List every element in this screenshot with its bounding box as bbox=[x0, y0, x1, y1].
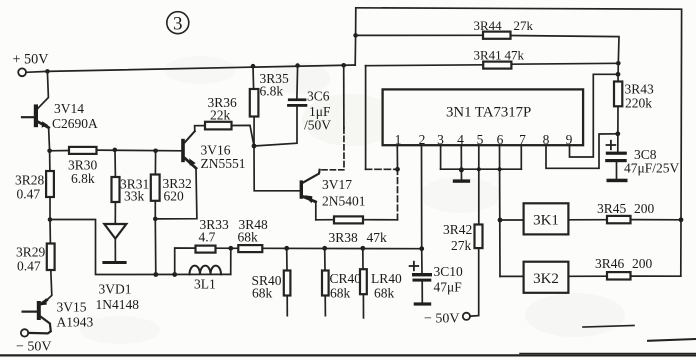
wire pins3-7 tie bbox=[441, 168, 522, 170]
wire 3C6 bottom lead to X1 bbox=[254, 107, 297, 146]
svg-text:/50V: /50V bbox=[304, 118, 331, 133]
wire pin6 to 3K2 bbox=[500, 275, 524, 277]
svg-text:ZN5551: ZN5551 bbox=[201, 156, 246, 171]
wire 3R43 bottom lead bbox=[617, 106, 619, 151]
resistor 3R38 bbox=[329, 216, 388, 245]
wire 3R33 to 3R48 bbox=[216, 247, 239, 249]
wire C left drop to pin1 node bbox=[365, 66, 367, 170]
node X1 bbox=[252, 144, 257, 149]
resistor CR40 bbox=[322, 248, 361, 315]
wire 3K1 to 3R45 bbox=[568, 219, 607, 221]
svg-text:47k: 47k bbox=[505, 48, 525, 63]
wire 3R30 left stub bbox=[50, 150, 69, 152]
transistor Q 3V16 bbox=[181, 131, 245, 171]
wire 3K2 to 3R46 bbox=[568, 275, 607, 277]
resistor 3R44 bbox=[474, 18, 534, 39]
node pin2 bus bbox=[419, 246, 424, 251]
resistor 3R36 bbox=[205, 95, 237, 129]
wire output node to diode row bbox=[50, 220, 231, 275]
node 3L1 left bbox=[172, 272, 177, 277]
wire 3C6 top lead bbox=[296, 66, 299, 99]
capacitor 3C8 bbox=[605, 141, 679, 183]
capacitor 3C6 bbox=[287, 89, 331, 133]
svg-text:3R38: 3R38 bbox=[329, 230, 359, 245]
svg-text:6.8k: 6.8k bbox=[260, 84, 284, 99]
wire 3V16 emitter link bbox=[155, 168, 197, 219]
resistor 3R43 bbox=[614, 82, 654, 111]
resistor 3R46 bbox=[595, 256, 653, 280]
relay 3K2 bbox=[524, 262, 569, 293]
resistor SR40 bbox=[252, 248, 291, 315]
svg-text:3R41: 3R41 bbox=[474, 48, 502, 63]
node 3R30 left bbox=[47, 149, 52, 154]
svg-text:3K2: 3K2 bbox=[533, 271, 559, 287]
wire pin9 route to 3R43 top node bbox=[570, 74, 619, 157]
resistor 3R35 bbox=[250, 71, 289, 117]
svg-text:3R29: 3R29 bbox=[16, 245, 46, 260]
wire 3R32 top lead bbox=[154, 151, 156, 175]
svg-text:47k: 47k bbox=[367, 230, 388, 245]
wire dashed pin1 drop bbox=[397, 169, 399, 220]
svg-text:3VD1: 3VD1 bbox=[99, 282, 132, 297]
node rail-dashed-drop bbox=[341, 63, 346, 68]
resistor 3R29 bbox=[16, 244, 55, 274]
svg-text:4.7: 4.7 bbox=[199, 230, 216, 245]
node rail-3R35 bbox=[251, 64, 256, 69]
wire C (3R41 rail) bbox=[366, 64, 484, 67]
resistor 3R31 bbox=[112, 177, 150, 204]
wire 3R28 bottom lead bbox=[49, 197, 51, 220]
node 3R32 col joins diode row bbox=[153, 272, 158, 277]
bottom border doubled right bbox=[520, 353, 696, 355]
svg-text:47μF/25V: 47μF/25V bbox=[624, 161, 679, 176]
svg-text:3V17: 3V17 bbox=[322, 177, 352, 192]
-50V terminal mid bbox=[424, 312, 470, 327]
wire pin5 lead to 3R42 bbox=[478, 145, 480, 224]
wire 3R35 top lead bbox=[252, 66, 255, 89]
wire 3R43 top lead bbox=[617, 63, 619, 81]
wire 3R35 bottom lead bbox=[253, 117, 255, 147]
wire 3R29 top lead bbox=[49, 220, 51, 244]
wire 3R28 top lead bbox=[49, 151, 51, 171]
wire rail up to top loop bbox=[354, 8, 357, 65]
wire pin2 lead to 3C10 bbox=[421, 145, 424, 273]
wire pin8 route to 3C8 node bbox=[546, 134, 618, 169]
inductor 3L1 bbox=[190, 266, 222, 292]
wire 3R38 left lead bbox=[316, 219, 334, 221]
node 3R43 top bbox=[616, 61, 621, 66]
resistor 3R48 bbox=[238, 217, 269, 252]
wire 3R46 to right rail corner bbox=[631, 275, 681, 277]
node tie pin6 bbox=[498, 167, 502, 171]
svg-text:3: 3 bbox=[173, 14, 183, 35]
wire C right to 3R43 top node bbox=[511, 62, 618, 65]
svg-text:3R42: 3R42 bbox=[443, 222, 472, 237]
svg-text:+ 50V: + 50V bbox=[13, 52, 50, 68]
node bus CR40 bbox=[322, 246, 327, 251]
svg-text:5: 5 bbox=[477, 132, 484, 147]
+50V terminal bbox=[13, 52, 50, 77]
figure number 3 circled bbox=[167, 12, 189, 35]
wire B right (3R44 to 3R43 top) bbox=[511, 36, 620, 64]
resistor 3R45 bbox=[597, 201, 655, 223]
svg-text:3L1: 3L1 bbox=[194, 277, 216, 292]
ground bar under pin4 bbox=[453, 170, 470, 183]
wire pin4 lead bbox=[460, 145, 462, 170]
svg-text:620: 620 bbox=[164, 189, 185, 204]
svg-text:22k: 22k bbox=[210, 108, 231, 123]
resistor 3R41 bbox=[474, 48, 525, 69]
wire pin1 lead bbox=[396, 145, 398, 169]
svg-text:7: 7 bbox=[519, 132, 526, 147]
wire left column 3V14 collector drop bbox=[38, 71, 49, 108]
resistor 3R30 bbox=[68, 147, 98, 186]
stray mark lower right bbox=[648, 339, 696, 341]
node wireB branch bbox=[353, 33, 358, 38]
wire pin3 lead bbox=[440, 145, 442, 169]
svg-text:− 50V: − 50V bbox=[424, 312, 460, 327]
wire pin6 to 3K1 bbox=[500, 219, 524, 221]
resistor 3R42 bbox=[443, 222, 483, 253]
svg-text:2N5401: 2N5401 bbox=[322, 194, 366, 209]
svg-text:3R43: 3R43 bbox=[625, 82, 655, 97]
svg-text:200: 200 bbox=[632, 256, 653, 271]
svg-text:3V15: 3V15 bbox=[57, 300, 87, 315]
wire dashed rail drop to 3V17 collector bbox=[320, 65, 344, 170]
svg-text:3C6: 3C6 bbox=[307, 89, 330, 104]
svg-text:− 50V: − 50V bbox=[16, 340, 52, 355]
wire +50V rail bbox=[26, 65, 355, 72]
svg-text:3C10: 3C10 bbox=[434, 264, 464, 279]
IC U 3N1 TA7317P bbox=[383, 89, 583, 147]
resistor LR40 bbox=[360, 248, 402, 318]
svg-text:3R45: 3R45 bbox=[597, 201, 627, 216]
svg-text:220k: 220k bbox=[625, 96, 652, 111]
relay 3K1 bbox=[524, 203, 569, 234]
wire 3L1 right riser bbox=[230, 248, 232, 274]
node rail-3V14 bbox=[45, 69, 50, 74]
wire 3R32 bottom lead bbox=[154, 201, 157, 275]
resistor 3R28 bbox=[15, 171, 54, 202]
wire inductor row left segment bbox=[175, 248, 196, 275]
svg-text:68k: 68k bbox=[252, 286, 273, 301]
svg-text:LR40: LR40 bbox=[371, 271, 402, 286]
transistor Q 3V15 bbox=[23, 298, 94, 333]
node 3C8 top bbox=[615, 131, 620, 136]
svg-text:A1943: A1943 bbox=[57, 315, 94, 330]
svg-text:0.47: 0.47 bbox=[17, 187, 41, 202]
node rail-3C6 bbox=[295, 63, 300, 68]
svg-text:47μF: 47μF bbox=[434, 280, 463, 295]
bottom border line bbox=[0, 354, 696, 356]
node tie pin5 bbox=[477, 167, 481, 171]
wire 3V16 collector to 3R36 bbox=[195, 126, 205, 132]
wire 3R30 right to 3V16 base bbox=[97, 149, 182, 152]
resistor 3R32 bbox=[151, 175, 192, 204]
svg-text:0.47: 0.47 bbox=[17, 259, 41, 274]
node bus SR40 bbox=[284, 246, 289, 251]
wire 3R29 bottom to 3V15 bbox=[46, 270, 52, 301]
wire pin7 lead bbox=[520, 145, 522, 169]
transistor Q 3V14 bbox=[22, 101, 98, 131]
svg-text:3V14: 3V14 bbox=[54, 101, 84, 116]
wire 3R31 top lead bbox=[114, 150, 116, 177]
svg-text:68k: 68k bbox=[238, 230, 259, 245]
svg-text:33k: 33k bbox=[124, 189, 145, 204]
node 3L1 right riser bbox=[228, 246, 233, 251]
svg-text:3R46: 3R46 bbox=[595, 256, 625, 271]
node pin9 joint bbox=[616, 72, 621, 77]
node pin1 bbox=[395, 167, 400, 172]
wire 3R36 right to node X1 bbox=[232, 125, 255, 146]
wire top loop A bbox=[356, 8, 682, 276]
resistor 3R33 bbox=[196, 217, 230, 253]
node pin6 3K1 bbox=[498, 218, 503, 223]
svg-text:27k: 27k bbox=[451, 238, 472, 253]
wire 3R31 bottom to diode bbox=[114, 202, 116, 224]
node 3R32-3V16 emitter bbox=[153, 217, 158, 222]
wire 3V14 emitter down bbox=[49, 128, 50, 151]
wire bus 3R48 to pin2 column bbox=[262, 247, 421, 249]
svg-text:68k: 68k bbox=[374, 286, 395, 301]
svg-text:68k: 68k bbox=[330, 286, 351, 301]
wire dashed pin1 node horizontal bbox=[366, 168, 398, 170]
wire B left (to 3R44) bbox=[356, 34, 483, 36]
capacitor 3C10 bbox=[410, 262, 463, 306]
svg-text:200: 200 bbox=[634, 201, 655, 216]
stray mark lower middle bbox=[583, 326, 634, 328]
node 3R32 top bbox=[153, 149, 158, 154]
wire 3V17 emitter down bbox=[315, 202, 317, 220]
svg-text:3R28: 3R28 bbox=[15, 173, 45, 188]
wire X1 down to 3V17 base bbox=[254, 146, 300, 191]
wire 3R45 to right rail bbox=[631, 219, 682, 221]
diode 3VD1 bbox=[96, 224, 140, 312]
wire 3R38 right lead bbox=[363, 219, 398, 221]
node output rail left bbox=[48, 217, 53, 222]
svg-text:6.8k: 6.8k bbox=[71, 171, 95, 186]
node 3R31 top bbox=[113, 148, 118, 153]
node right rail 3R45 bbox=[679, 217, 684, 222]
node bus LR40 bbox=[360, 246, 365, 251]
wire pin6 lead down bbox=[499, 145, 502, 276]
svg-text:C2690A: C2690A bbox=[52, 116, 98, 131]
svg-text:3N1 TA7317P: 3N1 TA7317P bbox=[446, 105, 531, 121]
node tie pin4 bbox=[459, 167, 464, 172]
wire 3R42 bottom to -50V terminal bbox=[470, 248, 479, 316]
svg-text:3K1: 3K1 bbox=[533, 213, 559, 229]
svg-text:CR40: CR40 bbox=[330, 271, 362, 286]
svg-text:1N4148: 1N4148 bbox=[96, 297, 140, 312]
-50V terminal left bbox=[16, 329, 52, 354]
transistor Q 3V17 bbox=[300, 170, 366, 209]
svg-text:27k: 27k bbox=[514, 18, 534, 33]
